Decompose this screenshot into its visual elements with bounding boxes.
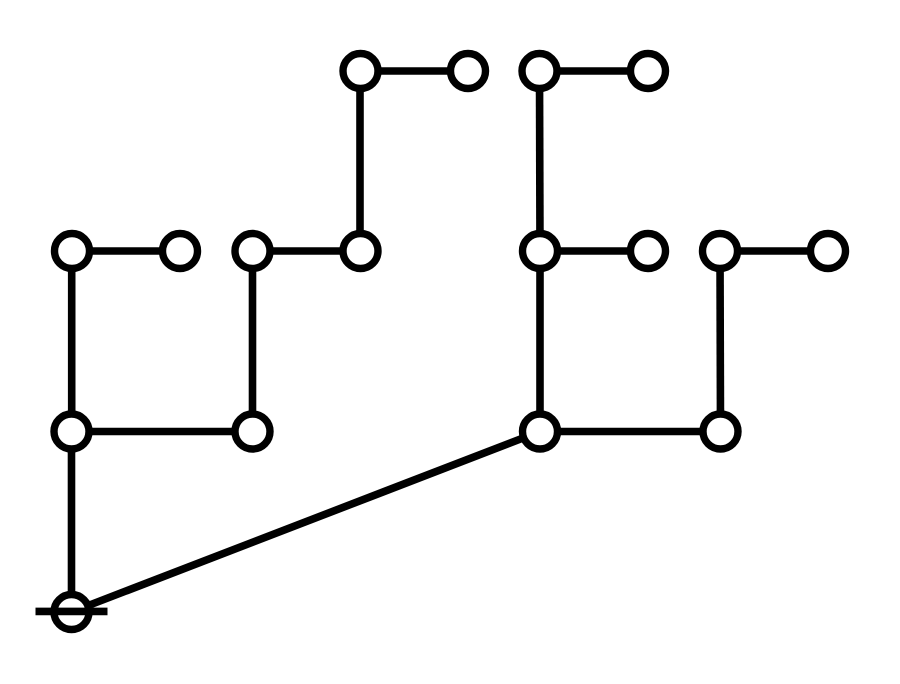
wire C1-C2 xyxy=(72,247,180,255)
wire A1-A2 xyxy=(361,67,469,75)
node B1 xyxy=(522,54,557,89)
node D4 xyxy=(811,234,846,269)
wire C3-C4 xyxy=(253,247,361,255)
wire D3-D4 xyxy=(720,247,828,255)
node F2 xyxy=(703,414,738,449)
node D1 xyxy=(523,234,558,269)
wire C1-E1 xyxy=(68,251,76,432)
node F1 xyxy=(523,414,558,449)
node B2 xyxy=(631,54,666,89)
wire root-F1 diagonal xyxy=(72,432,541,613)
node root xyxy=(54,595,89,630)
wire E1-E2 xyxy=(72,428,253,436)
wire F1-F2 xyxy=(540,428,721,436)
node E2 xyxy=(235,414,270,449)
wire D3-F2 xyxy=(716,251,724,432)
node D2 xyxy=(631,234,666,269)
wire D1-D2 xyxy=(540,247,648,255)
node D3 xyxy=(703,234,738,269)
node A2 xyxy=(451,54,486,89)
node C3 xyxy=(235,234,270,269)
root marker bar xyxy=(36,608,108,616)
node A1 xyxy=(343,54,378,89)
wire B1-D1 xyxy=(536,71,544,251)
node E1 xyxy=(54,414,89,449)
node C2 xyxy=(163,234,198,269)
wire C3-E2 xyxy=(249,251,257,432)
node C4 xyxy=(343,234,378,269)
wire E1-root xyxy=(68,432,76,613)
wire B1-B2 xyxy=(540,67,649,75)
wire A1-C4 xyxy=(356,71,364,251)
wire D1-F1 xyxy=(536,251,544,432)
node C1 xyxy=(55,234,90,269)
